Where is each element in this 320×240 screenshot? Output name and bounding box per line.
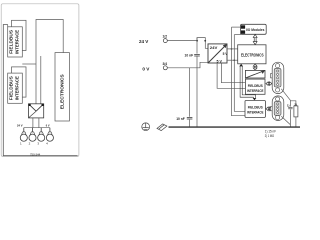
fieldbus interface tag 1 back box: [12, 20, 27, 50]
terminal 1/2 circle: [163, 39, 167, 43]
wire converter bottom 5V stub B to fieldbus interface 1: [221, 63, 245, 83]
wire pad line upper to I/O modules: [232, 26, 241, 28]
svg-text:INTERFACE: INTERFACE: [247, 110, 264, 114]
terminal 4: [46, 128, 53, 142]
svg-text:2: 2: [29, 142, 31, 146]
svg-text:10 nF: 10 nF: [185, 53, 194, 57]
fieldbus interface tag 2 back box: [12, 67, 27, 97]
ground rail: [169, 126, 301, 128]
junction dot 24V rail right: [204, 40, 206, 42]
svg-text:ELECTRONICS: ELECTRONICS: [241, 53, 264, 58]
capacitor C1 10nF plates: [194, 54, 200, 56]
svg-text:750-344: 750-344: [30, 152, 40, 156]
svg-text:2): 2): [294, 103, 297, 107]
wire converter 5V output upper to electronics: [227, 48, 238, 50]
data arrow electronics to isolation 1: [253, 64, 257, 70]
D-sub connector 2: [271, 96, 284, 121]
svg-text:1): 1): [287, 103, 290, 107]
wire X-box to terminal bar left: [32, 118, 34, 128]
isolation box 1 (diagonal): [245, 70, 265, 78]
DC/DC converter U1 box: [208, 44, 227, 63]
wire shield D-sub2 to rail: [281, 116, 290, 125]
svg-text:I/O Modules: I/O Modules: [246, 27, 264, 32]
coupler module housing outline: [3, 25, 77, 156]
svg-text:24V: 24V: [210, 45, 218, 50]
svg-text:5 V: 5 V: [223, 51, 228, 56]
I/O modules box: [241, 24, 267, 34]
wire 0V rail: [167, 62, 208, 68]
fieldbus interface 1 label: [247, 84, 264, 93]
svg-text:24 V: 24 V: [17, 123, 23, 127]
wire 24V rail bridge over cap line: [197, 38, 205, 41]
wire 5V bus vertical A to I/O modules and fieldbus interface 2: [232, 27, 246, 116]
I/O modules contact pad lower: [241, 30, 245, 33]
wire 5V bus vertical B to I/O modules and fieldbus interface 2: [234, 35, 245, 112]
I/O modules contact pad upper: [241, 25, 245, 28]
data bus electronics to fieldbus interface 2 (double line with arrow): [240, 66, 256, 98]
junction dot bus upper: [231, 48, 233, 50]
DC/DC converter diagonal with arrow: [208, 46, 225, 63]
fieldbus interface tag 1 label: [8, 30, 19, 54]
figure frame: [1, 4, 79, 157]
wire 24V rail into converter: [205, 41, 208, 49]
svg-text:4: 4: [46, 142, 48, 146]
svg-text:5 V: 5 V: [217, 59, 223, 64]
terminal 2: [29, 128, 36, 142]
shield clamp symbol: [157, 124, 167, 131]
isolation X-box (module power unit): [29, 104, 44, 118]
fieldbus interface 2 label: [247, 105, 264, 114]
electronics box (schematic): [238, 45, 266, 64]
svg-text:1: 1: [20, 142, 22, 146]
junction dot bus lower: [234, 59, 236, 61]
electronics box (module): [55, 53, 69, 121]
svg-text:FIELDBUS: FIELDBUS: [248, 105, 264, 109]
resistor R1 box (2): [294, 106, 298, 117]
terminal 1: [20, 128, 27, 142]
terminal 3: [38, 128, 45, 142]
svg-text:1) 15 nF: 1) 15 nF: [265, 130, 276, 134]
data arrow fieldbus 2 to D-sub 2: [266, 107, 272, 111]
wire tag to bus: [22, 63, 36, 65]
capacitor C2 10nF plates: [187, 118, 193, 119]
fieldbus interface tag 2 front box: [8, 73, 23, 103]
svg-text:3/4: 3/4: [163, 62, 168, 66]
wire shield resistor branch top: [290, 101, 296, 106]
wire X-box to terminal bar right: [38, 118, 40, 128]
wire converter 5V output lower to electronics: [227, 59, 238, 61]
terminal 3/4 circle: [163, 66, 167, 70]
wire capacitor branch 24V to earth: [196, 38, 198, 128]
fieldbus interface tag 1 front box: [8, 27, 23, 57]
wire 24V rail: [167, 40, 197, 42]
svg-text:10 nF: 10 nF: [176, 117, 185, 121]
svg-text:0 V: 0 V: [46, 123, 50, 127]
wire terminal distribution bar: [24, 127, 50, 129]
terminal numbers 1 2 3 4: [20, 142, 48, 146]
svg-text:2) 1 MΩ: 2) 1 MΩ: [265, 134, 275, 138]
wire pad line lower to I/O modules: [234, 34, 241, 36]
junction dot 24V rail left: [196, 40, 198, 42]
fieldbus interface 1 box: [245, 79, 265, 94]
wire resistor to rail: [295, 117, 297, 127]
fieldbus interface 2 box: [245, 101, 265, 118]
earth symbol: [142, 123, 150, 131]
data arrow fieldbus 1 to D-sub 1: [266, 82, 272, 86]
wire converter bottom 5V stub A to fieldbus interface 1: [217, 63, 245, 88]
D-sub connector 1: [271, 62, 284, 93]
wire shield D-sub1 to network: [281, 89, 290, 101]
svg-text:0 V: 0 V: [142, 66, 149, 71]
fieldbus interface tag 2 label: [8, 76, 19, 100]
svg-text:INTERFACE: INTERFACE: [247, 89, 264, 93]
svg-text:24 V: 24 V: [139, 39, 148, 44]
svg-text:FIELDBUS: FIELDBUS: [248, 84, 264, 88]
svg-text:1/2: 1/2: [163, 35, 168, 39]
capacitor C3 plates (1): [288, 107, 292, 109]
wire shield cap branch: [289, 100, 291, 127]
svg-text:FIELDBUS: FIELDBUS: [8, 76, 13, 100]
svg-text:3: 3: [37, 142, 39, 146]
wire bus to isolation box: [40, 56, 42, 104]
svg-text:FIELDBUS: FIELDBUS: [8, 30, 13, 54]
wire internal bus (top hat shape): [36, 20, 63, 105]
svg-text:ELECTRONICS: ELECTRONICS: [60, 74, 65, 109]
svg-text:INTERFACE: INTERFACE: [15, 76, 20, 100]
wire capacitor branch 0V to earth: [189, 68, 191, 127]
svg-text:INTERFACE: INTERFACE: [15, 30, 20, 54]
data arrow I/O modules to electronics: [253, 34, 257, 44]
